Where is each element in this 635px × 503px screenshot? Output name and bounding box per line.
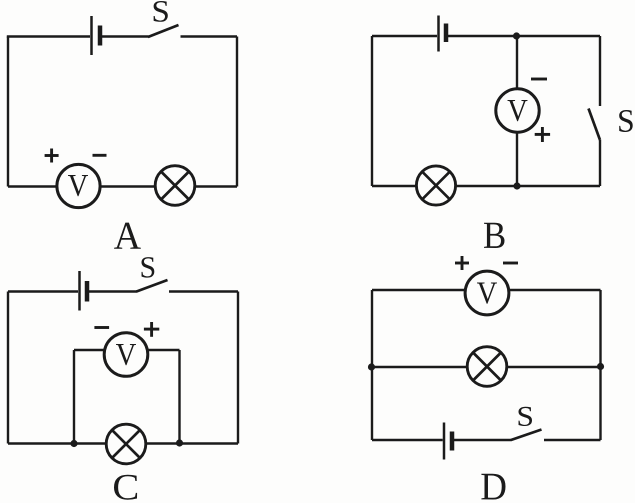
wire: A bottom (8, 185, 237, 187)
minus sign (B voltmeter -) (531, 78, 547, 81)
wire: D bottom middle segment (454, 439, 512, 441)
wire: B top left segment (372, 35, 437, 37)
switch S lever (B) (589, 109, 601, 141)
battery D short thick plate (-) (450, 432, 455, 451)
node: B top junction (513, 32, 520, 39)
wire: A left vertical (7, 37, 9, 187)
wire: B top right segment (448, 35, 600, 37)
voltmeter label V (U2, circuit B) (508, 100, 528, 121)
voltmeter U1 circle (A) (57, 164, 100, 207)
lamp L4 (D) (467, 347, 507, 387)
wire: A right vertical (236, 37, 238, 187)
wire: C left vertical (7, 292, 9, 444)
wire: B left vertical (371, 36, 373, 186)
wire: D top horizontal (372, 289, 601, 291)
switch S lever (D) (511, 430, 542, 441)
switch label S (circuit B) (619, 110, 633, 132)
wire: C inner loop right vertical (178, 350, 180, 444)
node: C bottom left junction (70, 440, 77, 447)
wire: B right vertical bottom (599, 140, 601, 186)
circuit label A (114, 223, 141, 249)
lamp L1 (A) (155, 166, 195, 206)
wire: C inner loop left vertical (73, 350, 75, 444)
switch S lever (A) (148, 25, 179, 37)
node: D middle right junction (597, 363, 604, 370)
node: D middle left junction (368, 363, 375, 370)
wire: C bottom (8, 442, 238, 444)
battery A short thick plate (-) (98, 26, 103, 46)
plus sign (C voltmeter +) (144, 328, 159, 331)
wire: A top right segment (181, 35, 238, 37)
minus sign (C voltmeter -) (94, 326, 109, 329)
wire: B bottom (372, 185, 600, 187)
voltmeter label V (U1, circuit A) (68, 175, 88, 196)
plus sign (B voltmeter +) (535, 133, 550, 136)
wire: D bottom right segment (544, 439, 601, 441)
wire: D left vertical (371, 290, 373, 440)
wire: D middle horizontal (372, 366, 601, 368)
wire: D right vertical (599, 290, 601, 440)
circuit label B (484, 223, 504, 248)
voltmeter label V (U4, circuit D) (477, 282, 497, 303)
voltmeter label V (U3, circuit C) (116, 344, 136, 365)
voltmeter U4 circle (D) (465, 271, 509, 315)
switch label S (circuit D) (518, 407, 532, 426)
wire: C right vertical (237, 292, 239, 444)
battery B long plate (+) (437, 16, 440, 52)
node: C bottom right junction (176, 439, 183, 446)
battery D long plate (+) (443, 423, 446, 460)
wire: D bottom left segment (372, 439, 443, 441)
minus sign (A voltmeter -) (93, 154, 107, 157)
wire: A top left segment (7, 35, 90, 37)
circuit label C (114, 475, 137, 500)
voltmeter U2 circle (B) (496, 89, 539, 132)
plus sign (D voltmeter +) (455, 262, 469, 265)
voltmeter U3 circle (C) (104, 333, 148, 377)
lamp L2 (B) (416, 166, 455, 205)
wire: B middle branch vertical (516, 36, 518, 186)
lamp L3 (C) (106, 424, 146, 464)
switch S lever (C) (137, 280, 168, 292)
battery A long plate (+) (90, 16, 93, 55)
wire: C inner loop top horizontal (74, 349, 180, 351)
switch label S (circuit A) (154, 1, 168, 22)
wire: C top middle segment (89, 290, 137, 292)
minus sign (D voltmeter -) (503, 262, 518, 265)
battery C short thick plate (-) (85, 281, 90, 302)
wire: B right vertical top (599, 36, 601, 106)
battery B short thick plate (-) (444, 24, 449, 43)
circuit label D (481, 474, 505, 500)
node: B bottom junction (513, 182, 520, 189)
plus sign (A voltmeter +) (45, 154, 59, 157)
wire: C top right segment (169, 290, 238, 292)
switch label S (circuit C) (142, 257, 155, 277)
battery C long plate (+) (78, 271, 81, 311)
wire: C top left segment (8, 290, 78, 292)
wire: A top middle segment (102, 35, 149, 37)
